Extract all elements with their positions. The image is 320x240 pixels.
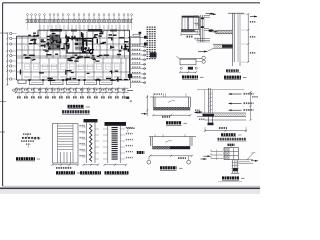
floor plan door swing arcs (30, 38, 118, 59)
floor plan internal vertical walls (22, 31, 125, 59)
detail corner wall and slab section (196, 88, 258, 141)
floor plan lower room dividers (22, 58, 126, 80)
floor plan bottom figures row (17, 92, 126, 98)
elevation ladder panel (52, 124, 81, 175)
floor plan internal horizontal walls (17, 38, 130, 72)
floor plan black framed room A (67, 39, 83, 54)
detail tall wall section with slabs (198, 13, 257, 80)
floor plan black framed room B (84, 39, 93, 54)
detail L-shaped wall section (195, 13, 217, 42)
detail cross junction plan (201, 144, 259, 182)
floor plan left grid bubbles and dimension line (0, 32, 17, 132)
floor plan outer walls (17, 30, 130, 80)
floor plan furniture marks (24, 46, 119, 70)
floor plan balcony wall ends (28, 79, 113, 81)
detail beam section one (141, 93, 200, 125)
detail small plan strip (16, 133, 41, 161)
floor plan column grid bubbles row (27, 14, 133, 20)
floor plan top dimension lines (26, 19, 133, 23)
detail window section (178, 13, 214, 38)
floor plan second stair treads (75, 40, 82, 50)
elevation chain panel (80, 119, 102, 175)
floor plan thick wall segments (20, 31, 129, 82)
detail lintel plan (177, 56, 206, 79)
border left line (2, 3, 4, 186)
floor plan bottom dimension rows (13, 87, 129, 93)
detail beam section two (137, 134, 196, 170)
footer grey band (0, 189, 260, 194)
floor plan title text (62, 105, 90, 115)
detail connection ladder diagram (126, 38, 146, 133)
elevation stirrup panel (103, 122, 133, 175)
detail notes text column (147, 27, 157, 60)
detail small beam with end plates (128, 32, 148, 46)
floor plan balconies (18, 80, 112, 85)
border bottom inner line (3, 185, 260, 187)
border top line (3, 2, 261, 4)
floor plan grid leader lines (28, 23, 132, 30)
border bottom heavy rule (0, 187, 260, 189)
floor plan staircase treads (51, 35, 60, 48)
floor plan top wall window ticks (40, 25, 128, 32)
floor plan window sills (24, 77, 121, 78)
